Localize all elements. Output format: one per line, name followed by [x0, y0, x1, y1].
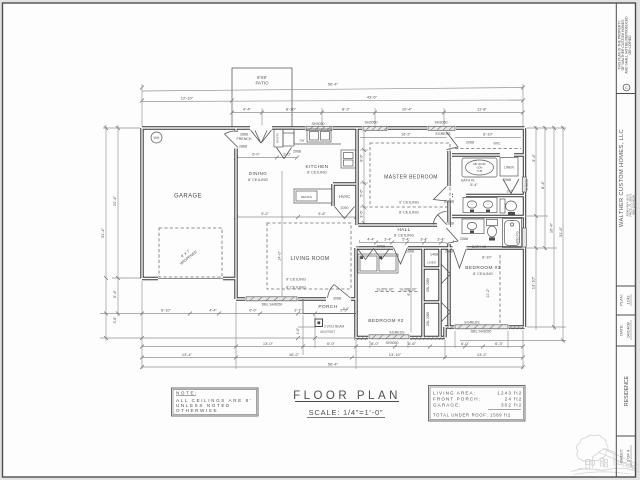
door: living room to porch — [328, 285, 351, 299]
svg-text:16'-4": 16'-4" — [549, 222, 554, 233]
svg-text:2068: 2068 — [293, 150, 301, 154]
tub tiny label — [473, 162, 486, 173]
svg-text:6'-3": 6'-3" — [495, 341, 504, 346]
svg-text:8' CEILING: 8' CEILING — [473, 271, 493, 276]
svg-text:8'-10": 8'-10" — [286, 107, 297, 112]
door: bedroom2 closet bifold — [358, 249, 390, 260]
svg-text:WIC: WIC — [494, 142, 501, 146]
svg-text:4'-6": 4'-6" — [408, 341, 417, 346]
svg-text:1243: 1243 — [497, 391, 512, 396]
svg-text:DBL SH3050: DBL SH3050 — [262, 303, 283, 307]
linen closet bath1 — [500, 158, 518, 177]
svg-text:DW: DW — [300, 139, 305, 143]
svg-text:1468: 1468 — [430, 253, 438, 257]
svg-text:13'-10": 13'-10" — [531, 276, 536, 289]
toilet bath2 — [487, 220, 498, 226]
svg-text:SH3030: SH3030 — [525, 179, 529, 191]
svg-text:4010 FG: 4010 FG — [516, 231, 520, 244]
svg-text:6'-0": 6'-0" — [327, 341, 336, 346]
copyright cell text — [618, 16, 633, 74]
svg-text:C: C — [625, 85, 628, 90]
dimension text labels top — [181, 82, 488, 112]
svg-text:2868: 2868 — [239, 145, 247, 149]
svg-text:850-123-0028: 850-123-0028 — [632, 195, 636, 215]
svg-text:8'-6": 8'-6" — [360, 154, 364, 162]
svg-text:BEDROOM #2: BEDROOM #2 — [368, 318, 403, 324]
svg-text:PORCH: PORCH — [318, 304, 337, 310]
svg-text:3'-7": 3'-7" — [294, 309, 302, 313]
svg-text:FRONT PORCH:: FRONT PORCH: — [433, 397, 481, 402]
svg-text:2868: 2868 — [240, 133, 248, 137]
svg-text:2668: 2668 — [445, 250, 453, 254]
svg-text:5'-6": 5'-6" — [360, 189, 364, 197]
svg-text:9'X9': 9'X9' — [257, 75, 267, 80]
svg-text:56'-4": 56'-4" — [328, 362, 339, 367]
svg-text:2 OF 4: 2 OF 4 — [626, 449, 631, 462]
svg-text:GARAGE: GARAGE — [174, 194, 202, 200]
svg-text:4'-4": 4'-4" — [209, 309, 217, 313]
svg-text:11'-8": 11'-8" — [477, 107, 487, 112]
window: living DBL SH3050 — [246, 297, 297, 301]
svg-text:EGRESS: EGRESS — [465, 321, 481, 325]
svg-text:5'-8": 5'-8" — [318, 212, 326, 216]
svg-text:MR 40X36: MR 40X36 — [473, 162, 486, 166]
svg-text:13'-0": 13'-0" — [263, 341, 274, 346]
svg-text:6'-10": 6'-10" — [161, 309, 171, 313]
top dim line 12'-10 / 43'-6 — [142, 100, 523, 102]
svg-text:FLOOR PLAN: FLOOR PLAN — [293, 390, 401, 402]
svg-text:SH3030: SH3030 — [312, 122, 325, 126]
door: hvac 2050 — [335, 207, 355, 219]
svg-text:LINEN: LINEN — [427, 261, 436, 265]
window: master SH3050 left — [363, 126, 388, 130]
svg-text:13'-2": 13'-2" — [477, 352, 488, 357]
area table — [429, 386, 526, 422]
svg-text:PLAN:: PLAN: — [619, 294, 624, 306]
svg-text:PANTRY: PANTRY — [276, 133, 280, 144]
svg-text:BATH #2: BATH #2 — [472, 245, 486, 249]
svg-text:8'-10": 8'-10" — [483, 133, 493, 137]
svg-text:SH3050: SH3050 — [365, 121, 378, 125]
svg-text:2068: 2068 — [503, 178, 511, 182]
svg-text:OTHERWISE: OTHERWISE — [176, 408, 218, 413]
right dim vertical lines — [535, 126, 537, 330]
svg-text:04/14/08: 04/14/08 — [626, 321, 631, 337]
svg-text:8' CEILING: 8' CEILING — [394, 233, 414, 238]
interior dim: master top row — [360, 137, 450, 139]
svg-text:8'-10": 8'-10" — [482, 256, 492, 260]
svg-text:2'-0": 2'-0" — [343, 307, 351, 311]
svg-text:4'-4": 4'-4" — [243, 107, 252, 112]
svg-text:4X4 POST: 4X4 POST — [320, 330, 335, 334]
dashed: living room ceiling break — [267, 223, 351, 289]
svg-text:2050: 2050 — [341, 206, 349, 210]
svg-text:SLOPE UP: SLOPE UP — [400, 288, 418, 292]
watermark house and tree bottom right — [571, 435, 640, 475]
window/door schedule labels — [237, 121, 511, 346]
porch slab edge — [303, 299, 356, 314]
door: pantry swing — [277, 148, 292, 159]
svg-text:8' CEILING: 8' CEILING — [307, 170, 327, 175]
svg-text:9'-2": 9'-2" — [261, 212, 269, 216]
garage door opening sill line — [158, 278, 223, 280]
svg-text:43'-6": 43'-6" — [367, 95, 378, 100]
svg-text:SH3050: SH3050 — [435, 121, 448, 125]
bottom dim rows — [142, 346, 523, 348]
svg-text:ft2: ft2 — [514, 397, 522, 402]
svg-text:SLOPE UP: SLOPE UP — [377, 288, 395, 292]
porch post — [315, 319, 323, 327]
bottom extension lines — [141, 281, 143, 369]
svg-text:GDN: GDN — [477, 166, 483, 170]
svg-text:ft2: ft2 — [514, 403, 522, 408]
left dim vertical lines — [105, 125, 107, 341]
svg-text:2668: 2668 — [406, 250, 414, 254]
svg-text:2068: 2068 — [466, 141, 474, 145]
svg-text:5068: 5068 — [377, 245, 385, 249]
svg-text:RESIDENCE: RESIDENCE — [624, 375, 630, 406]
interior dim: wic row — [455, 137, 521, 139]
door: french doors to patio — [251, 130, 272, 143]
porch post leader — [298, 326, 316, 328]
svg-text:WH: WH — [154, 136, 160, 140]
porch front line long extension — [100, 313, 303, 315]
svg-text:LIVING AREA:: LIVING AREA: — [433, 391, 476, 396]
svg-text:MASTER BEDROOM: MASTER BEDROOM — [384, 175, 438, 181]
svg-text:4'-4": 4'-4" — [367, 238, 375, 242]
toilet bath1 — [500, 199, 505, 213]
svg-text:TOTAL UNDER ROOF: 1589 ft2: TOTAL UNDER ROOF: 1589 ft2 — [433, 413, 511, 418]
svg-text:8'-4": 8'-4" — [540, 180, 545, 189]
door: hall to bedroom3 — [453, 250, 466, 269]
svg-text:8' CEILING: 8' CEILING — [399, 210, 419, 215]
dashed: garage door panel — [159, 228, 222, 277]
fixture dark marks — [361, 210, 516, 260]
svg-text:10'-4": 10'-4" — [402, 107, 413, 112]
svg-text:13'-4": 13'-4" — [182, 352, 193, 357]
porch beam dim row — [100, 337, 356, 339]
door: hall to bath2 — [447, 228, 459, 244]
svg-text:1'-6": 1'-6" — [296, 328, 300, 334]
svg-text:11'-2": 11'-2" — [486, 288, 490, 298]
dashed: bedroom3 ceiling slope — [499, 255, 501, 324]
garage door rotated label — [176, 246, 198, 266]
dim tick marks — [104, 86, 565, 370]
svg-text:HALL: HALL — [397, 227, 410, 232]
top dim line 56'-4" — [142, 88, 523, 92]
vanity bath2 — [462, 219, 484, 234]
range / stove — [341, 150, 356, 168]
svg-text:EGRESS: EGRESS — [390, 331, 406, 335]
interior dim: dining row — [236, 157, 297, 159]
svg-text:3'-4": 3'-4" — [531, 153, 536, 162]
interior dim vertical 14'-0 — [281, 171, 283, 297]
porch dim row labels — [161, 309, 348, 313]
svg-text:1243: 1243 — [626, 295, 631, 305]
svg-text:NOTE:: NOTE: — [176, 391, 198, 396]
dimension lines group — [100, 84, 566, 369]
svg-text:SHEET:: SHEET: — [619, 449, 624, 463]
door: master to bath1 — [434, 187, 447, 202]
svg-text:FRENCH: FRENCH — [237, 137, 252, 141]
dimension text labels bottom rows — [182, 341, 504, 367]
top dim line segments row — [232, 112, 523, 114]
door: closet col bifold right lower — [441, 302, 451, 322]
svg-text:BATH #1: BATH #1 — [461, 179, 475, 183]
svg-text:2868: 2868 — [446, 222, 454, 226]
svg-text:(2868): (2868) — [444, 200, 454, 204]
svg-text:REFRIG: REFRIG — [301, 195, 313, 199]
svg-text:22'-4": 22'-4" — [112, 195, 117, 206]
svg-text:16'-2": 16'-2" — [401, 133, 411, 137]
svg-text:ft2: ft2 — [514, 391, 522, 396]
interior dim: living row — [236, 216, 356, 218]
svg-text:SCALE: 1/4"=1'-0": SCALE: 1/4"=1'-0" — [309, 408, 384, 417]
svg-text:DBL 2068: DBL 2068 — [426, 278, 430, 292]
svg-text:OR COPIED: OR COPIED — [628, 35, 632, 55]
double vanity bath1 — [463, 198, 497, 213]
svg-text:56'-4": 56'-4" — [328, 82, 339, 87]
svg-text:24: 24 — [505, 397, 512, 402]
svg-text:GARAGE:: GARAGE: — [433, 403, 462, 408]
svg-text:5'-4": 5'-4" — [402, 238, 410, 242]
svg-text:TUB: TUB — [477, 169, 482, 173]
door: master to hall — [434, 212, 447, 225]
interior dim: hall row — [358, 242, 452, 244]
svg-text:LINEN: LINEN — [504, 166, 515, 170]
svg-text:8'-0": 8'-0" — [371, 341, 380, 346]
svg-text:6'-0": 6'-0" — [461, 341, 470, 346]
interior dim: master left vertical — [363, 130, 365, 223]
svg-text:2068: 2068 — [460, 237, 468, 241]
door: garage to dining swing — [225, 131, 239, 147]
title block column lines — [616, 3, 635, 477]
bedroom2 window seat boxes — [358, 254, 398, 273]
svg-text:9' CEILING: 9' CEILING — [286, 277, 306, 282]
svg-text:DINING: DINING — [249, 171, 268, 176]
wall path: exterior and interior — [142, 128, 525, 338]
svg-text:302: 302 — [501, 403, 512, 408]
dashed: master ceiling break — [370, 143, 450, 207]
svg-text:8' CEILING: 8' CEILING — [286, 285, 306, 290]
bedroom2 interior vertical dim — [410, 254, 412, 332]
svg-text:3'-4": 3'-4" — [384, 238, 392, 242]
water heater WH — [151, 132, 162, 143]
svg-text:14'-0": 14'-0" — [278, 251, 282, 261]
tub bath2 — [503, 219, 522, 248]
svg-text:WALTHER CUSTOM HOMES, LLC: WALTHER CUSTOM HOMES, LLC — [619, 129, 625, 227]
svg-text:HVAC: HVAC — [339, 194, 350, 199]
svg-text:9' CEILING: 9' CEILING — [399, 200, 419, 205]
svg-text:8'-2": 8'-2" — [342, 107, 351, 112]
svg-text:PATIO: PATIO — [255, 81, 269, 86]
window: bedroom2 SH3050 — [369, 335, 409, 339]
bottom counter + refrigerator — [294, 189, 332, 203]
interior dim labels — [252, 133, 514, 335]
svg-text:6'-0": 6'-0" — [252, 153, 260, 157]
dimension text labels left rotated — [100, 195, 117, 323]
svg-text:2-2X12 BEAM: 2-2X12 BEAM — [324, 325, 345, 329]
svg-text:12'-10": 12'-10" — [181, 96, 194, 101]
pantry cabinets — [274, 129, 283, 147]
window: bath1 right SH3030 — [522, 177, 526, 192]
hatched front walls bedroom2 and bedroom3 — [357, 326, 524, 341]
kitchen sink double — [307, 129, 331, 142]
window: bedroom3 DBL SH3050 — [455, 325, 508, 329]
svg-text:DBL SH3050: DBL SH3050 — [471, 330, 492, 334]
svg-text:DBL 2068: DBL 2068 — [426, 312, 430, 326]
svg-text:KITCHEN: KITCHEN — [306, 164, 329, 169]
svg-text:3'-4": 3'-4" — [437, 238, 445, 242]
window: master SH3050 right EGRESS — [428, 126, 455, 130]
svg-text:3'-6": 3'-6" — [360, 210, 364, 218]
svg-text:3'-8": 3'-8" — [113, 316, 117, 324]
svg-text:8' CEILING: 8' CEILING — [248, 177, 268, 182]
svg-text:EGRESS: EGRESS — [436, 132, 452, 136]
svg-text:6'-0": 6'-0" — [249, 309, 257, 313]
dashed: slope up lines bedroom2 — [375, 291, 396, 293]
door: closet col bifold right upper — [441, 264, 451, 284]
svg-text:3'-4": 3'-4" — [420, 238, 428, 242]
note box — [172, 388, 259, 416]
door: master to wic — [447, 132, 459, 150]
svg-text:16'-2": 16'-2" — [289, 352, 300, 357]
patio outline — [232, 68, 292, 128]
window: kitchen SH3030 — [306, 126, 332, 130]
svg-text:5'-4": 5'-4" — [470, 183, 478, 187]
master bath garden tub — [462, 158, 497, 177]
window: bath2 right 4010FG — [522, 228, 526, 247]
door: hall to bedroom2 — [394, 248, 408, 265]
svg-text:31'-4": 31'-4" — [558, 226, 563, 237]
dashed: WIC shelf — [455, 148, 521, 150]
svg-text:5'-4": 5'-4" — [112, 289, 117, 298]
svg-text:31'-4": 31'-4" — [100, 227, 105, 238]
svg-text:LIVING ROOM: LIVING ROOM — [291, 256, 330, 262]
top extension lines — [141, 84, 143, 126]
dimension text labels right rotated — [531, 153, 564, 289]
svg-text:SH3050: SH3050 — [386, 341, 399, 345]
svg-text:13'-10": 13'-10" — [389, 352, 402, 357]
kitchen counter top — [294, 131, 341, 144]
copyright C symbol — [623, 84, 630, 91]
svg-text:3068: 3068 — [333, 297, 341, 301]
door: linen small — [503, 179, 519, 194]
svg-text:DATE:: DATE: — [619, 324, 624, 335]
